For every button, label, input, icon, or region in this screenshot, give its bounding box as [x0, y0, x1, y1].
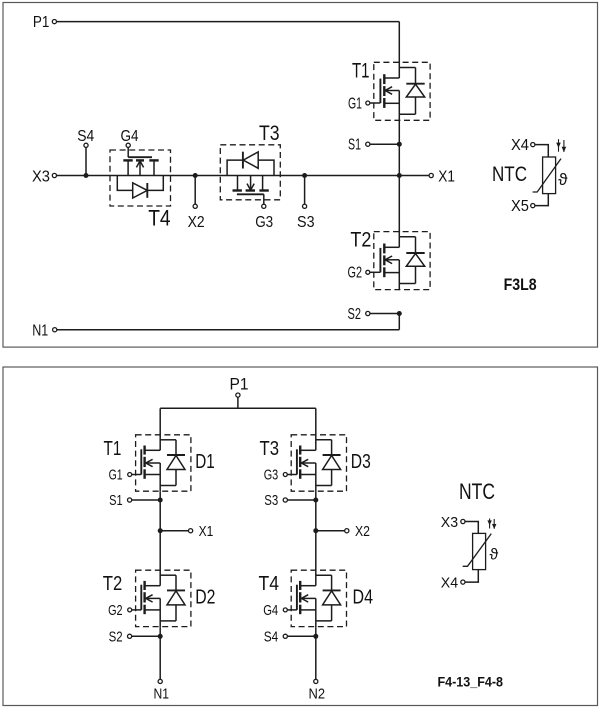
svg-text:D3: D3: [351, 451, 371, 473]
svg-text:G3: G3: [255, 214, 273, 231]
svg-text:S2: S2: [109, 628, 123, 645]
svg-text:D4: D4: [353, 587, 374, 609]
svg-text:S4: S4: [264, 628, 279, 645]
svg-text:N1: N1: [32, 322, 48, 339]
svg-text:X3: X3: [441, 514, 458, 531]
svg-text:X2: X2: [355, 523, 370, 540]
svg-text:NTC: NTC: [492, 163, 527, 186]
svg-text:S2: S2: [348, 306, 362, 323]
svg-text:S4: S4: [77, 128, 94, 145]
svg-text:N1: N1: [153, 686, 169, 703]
svg-text:S1: S1: [348, 137, 361, 154]
svg-text:G1: G1: [348, 95, 362, 112]
svg-text:G4: G4: [263, 602, 278, 619]
svg-text:G2: G2: [348, 265, 363, 282]
svg-text:T1: T1: [104, 438, 122, 460]
svg-text:G2: G2: [108, 602, 123, 619]
svg-text:T4: T4: [148, 205, 170, 230]
svg-text:X4: X4: [511, 137, 529, 154]
svg-text:T3: T3: [259, 122, 280, 145]
svg-text:D2: D2: [195, 587, 215, 609]
svg-text:N2: N2: [309, 686, 326, 703]
svg-text:S1: S1: [109, 492, 123, 509]
svg-text:P1: P1: [230, 374, 249, 393]
svg-text:P1: P1: [33, 14, 50, 31]
svg-text:G3: G3: [264, 467, 279, 484]
svg-text:ϑ: ϑ: [490, 547, 499, 564]
svg-text:X2: X2: [188, 214, 205, 231]
svg-text:S3: S3: [264, 492, 278, 509]
svg-text:T4: T4: [259, 573, 280, 595]
svg-text:S3: S3: [297, 214, 315, 231]
svg-text:X1: X1: [438, 168, 455, 185]
svg-text:NTC: NTC: [459, 479, 495, 504]
svg-text:T2: T2: [350, 229, 371, 252]
svg-text:G4: G4: [121, 128, 139, 145]
svg-text:T1: T1: [352, 59, 370, 82]
svg-text:D1: D1: [195, 451, 215, 473]
svg-text:X5: X5: [511, 198, 529, 215]
svg-text:X1: X1: [199, 523, 214, 540]
svg-text:ϑ: ϑ: [558, 170, 568, 189]
svg-text:G1: G1: [109, 467, 123, 484]
svg-text:F4-13_F4-8: F4-13_F4-8: [438, 674, 504, 690]
svg-text:X3: X3: [32, 168, 50, 185]
svg-text:T3: T3: [260, 438, 280, 460]
svg-text:T2: T2: [103, 573, 123, 595]
svg-text:F3L8: F3L8: [504, 275, 537, 294]
svg-text:X4: X4: [441, 575, 458, 592]
